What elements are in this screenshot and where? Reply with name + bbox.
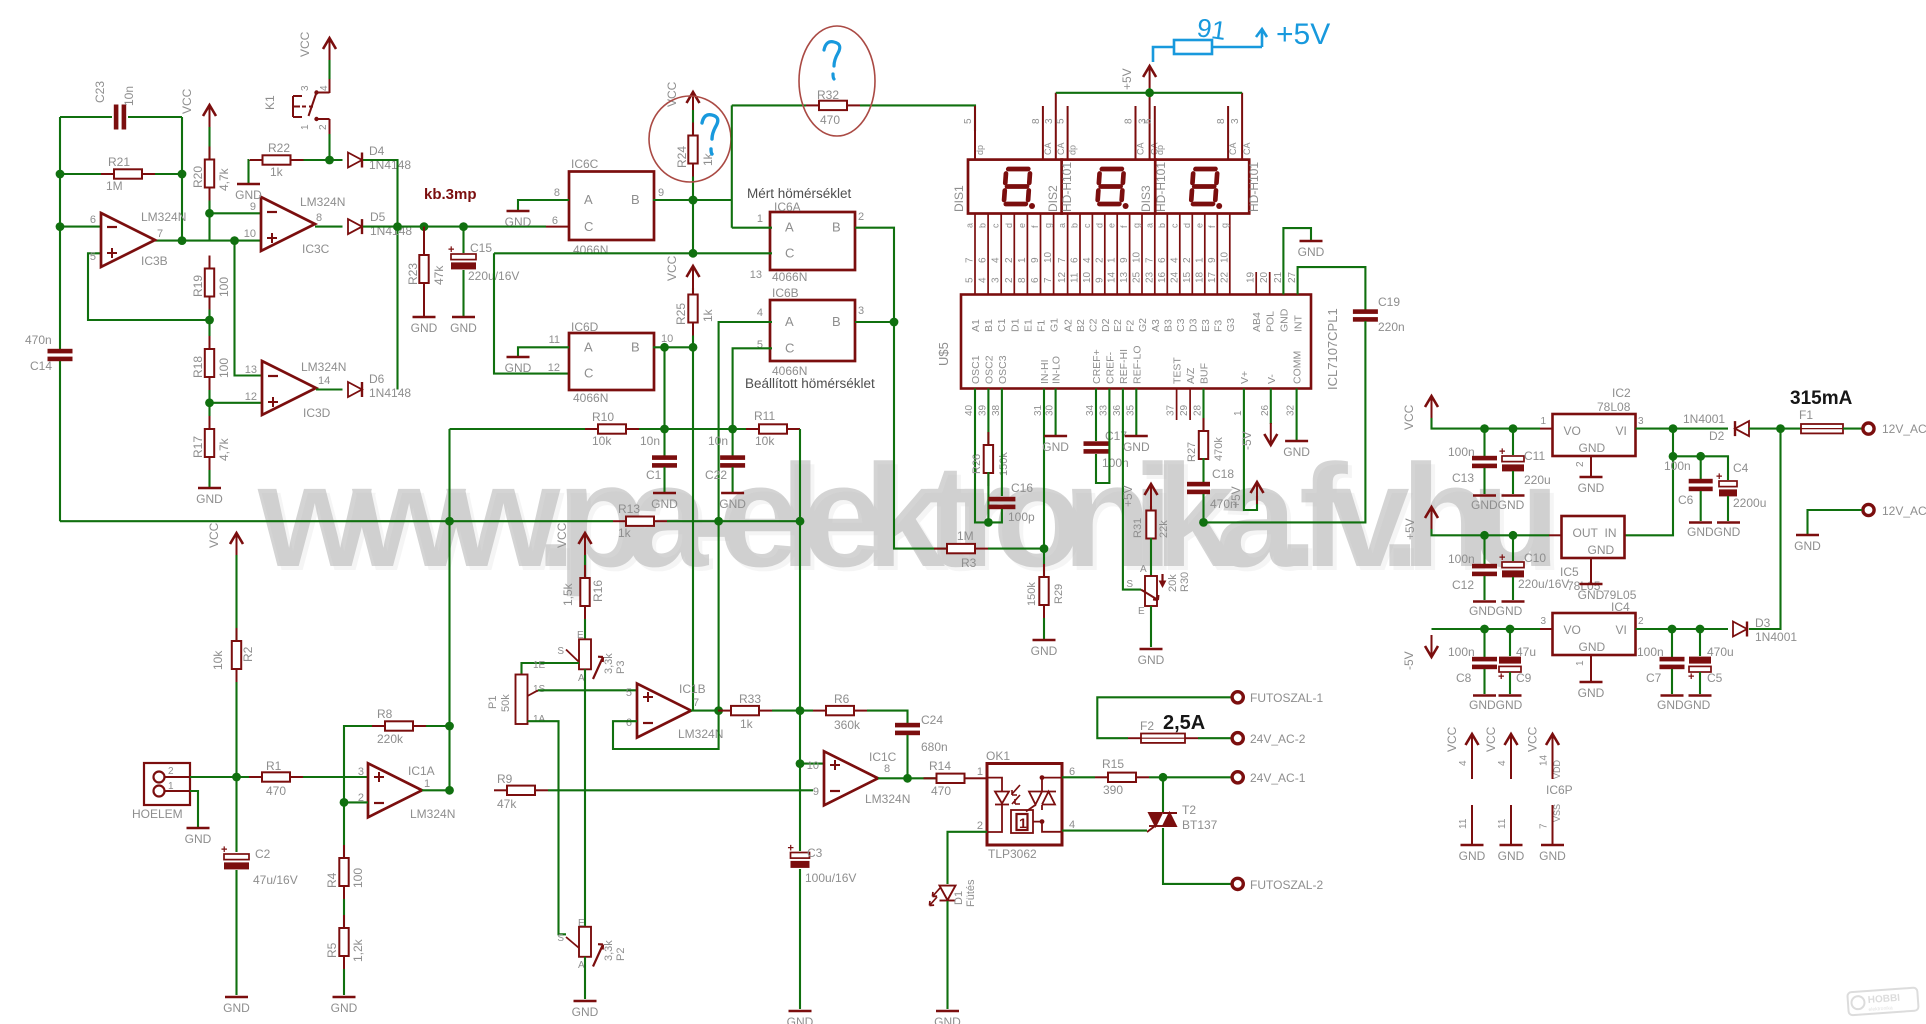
svg-text:8: 8 [1031, 118, 1042, 124]
svg-text:C3: C3 [1175, 318, 1187, 332]
svg-text:8: 8 [1216, 118, 1227, 124]
wire IC1B feedback [613, 711, 719, 749]
wire R21 left [60, 173, 114, 175]
wire R27 to C18 [1202, 458, 1204, 482]
ground R23 [411, 317, 438, 335]
resistor R33 [718, 706, 772, 715]
wire D1 to GND [946, 901, 948, 1009]
svg-text:+5V: +5V [1121, 485, 1135, 507]
wire segment pin C1 [1000, 214, 1002, 295]
svg-text:10n: 10n [708, 434, 728, 448]
svg-text:GND: GND [934, 1015, 961, 1024]
+5V symbol above R31 [1145, 484, 1158, 506]
svg-text:40: 40 [964, 404, 975, 416]
resistor R18 [205, 336, 214, 390]
junction [459, 222, 468, 231]
resistor R14 [924, 774, 978, 783]
wire +5V arrow to rail [1149, 88, 1151, 93]
svg-text:F2: F2 [1125, 320, 1137, 332]
junction [393, 222, 402, 231]
resistor R24 [688, 123, 697, 177]
svg-text:CA: CA [1228, 142, 1238, 155]
pad 24V_AC-1 [1232, 772, 1243, 783]
svg-text:100p: 100p [1008, 510, 1035, 524]
svg-text:+5V: +5V [1229, 486, 1243, 508]
svg-text:+5V: +5V [1276, 18, 1330, 51]
svg-text:A3: A3 [1150, 319, 1162, 332]
svg-text:E: E [1138, 606, 1145, 617]
svg-text:C24: C24 [921, 713, 943, 727]
junction [890, 318, 899, 327]
wire pin36 to R30 [1123, 389, 1141, 590]
svg-text:VI: VI [1616, 623, 1627, 637]
svg-text:U$5: U$5 [936, 342, 951, 366]
wire C14 bottom to y521 [59, 361, 61, 521]
ground 12V_AC [1794, 535, 1821, 553]
svg-text:D2: D2 [1100, 318, 1112, 332]
svg-text:1,5k: 1,5k [561, 582, 575, 606]
svg-text:R4: R4 [325, 872, 339, 888]
svg-text:R1: R1 [266, 759, 282, 773]
svg-text:GND: GND [651, 497, 678, 511]
svg-text:47k: 47k [497, 797, 517, 811]
svg-text:A2: A2 [1063, 319, 1075, 332]
wire INT to C19 [1298, 267, 1366, 310]
VCC symbol above R24 [687, 92, 700, 114]
svg-text:K1: K1 [263, 95, 277, 110]
ground U$5 pins 20/21 [1298, 241, 1325, 259]
wire VCC to R24 [692, 110, 694, 135]
opto triac inside OK1 [1011, 778, 1062, 833]
svg-text:23: 23 [1144, 271, 1155, 283]
svg-text:OSC1: OSC1 [970, 355, 982, 384]
svg-text:1N4001: 1N4001 [1755, 630, 1797, 644]
junction [689, 343, 698, 352]
trimmer P2 body [579, 927, 591, 957]
svg-text:220u/16V: 220u/16V [1518, 577, 1569, 591]
wire P2 to GND [584, 957, 586, 999]
wire IC6B out [855, 321, 894, 323]
pad FUTOSZAL-2 [1232, 878, 1243, 889]
svg-text:10: 10 [807, 760, 819, 772]
svg-text:24V_AC-1: 24V_AC-1 [1250, 771, 1306, 785]
svg-text:1: 1 [977, 766, 983, 778]
svg-text:4066N: 4066N [573, 243, 608, 257]
ground C3 [787, 1011, 814, 1024]
diode D6 [348, 382, 362, 397]
resistor R32 [806, 101, 860, 110]
wire P1 1A to P2 S [528, 721, 567, 934]
wire pin2 to R8 [344, 726, 372, 802]
svg-text:LM324N: LM324N [141, 210, 186, 224]
svg-text:POL: POL [1265, 311, 1277, 332]
svg-text:-5V: -5V [1240, 431, 1254, 450]
svg-text:C12: C12 [1452, 578, 1474, 592]
svg-text:F1: F1 [1799, 408, 1813, 422]
fuse F1 [1801, 424, 1843, 433]
svg-text:GND: GND [1579, 441, 1606, 455]
svg-text:150k: 150k [998, 452, 1010, 476]
VCC symbol IC6P 3 [1546, 734, 1559, 756]
svg-text:C2: C2 [1087, 318, 1099, 332]
svg-text:P2: P2 [615, 948, 627, 961]
svg-text:35: 35 [1125, 404, 1136, 416]
wire R22 left to GND [247, 160, 250, 183]
wire segment pin B1 [987, 214, 989, 295]
pad 24V_AC-2 [1232, 733, 1243, 744]
wire R1 to IC1A pin3 [303, 776, 368, 778]
capacitor C1 [652, 455, 677, 467]
svg-text:HOBBI: HOBBI [1867, 993, 1900, 1006]
annotation ellipse around R32 [799, 26, 875, 136]
junction [984, 518, 993, 527]
capacitor C13 [1472, 456, 1497, 468]
annotation blue question mark R32 [824, 42, 840, 79]
junction [796, 706, 805, 715]
wire R5 to GND [343, 969, 345, 995]
wire IC2 VI to D2 [1636, 428, 1729, 430]
svg-text:47k: 47k [432, 265, 446, 285]
svg-text:VCC: VCC [1402, 404, 1416, 430]
svg-text:6: 6 [1070, 257, 1081, 263]
pad 12V_AC-2 [1863, 504, 1874, 515]
wire gnd pin [1510, 805, 1512, 844]
svg-text:g: g [1043, 223, 1053, 228]
wire F1 to pad [1843, 428, 1862, 430]
svg-text:GND: GND [1042, 440, 1069, 454]
wire R24 node down [692, 200, 694, 253]
wire x182 vertical [181, 117, 183, 241]
svg-text:FUTOSZAL-2: FUTOSZAL-2 [1250, 878, 1323, 892]
junction [796, 759, 805, 768]
pin 37 stub [1176, 389, 1178, 421]
svg-text:1k: 1k [270, 165, 284, 179]
junction [205, 398, 214, 407]
svg-text:C23: C23 [93, 81, 107, 103]
wire pin28 down [1202, 389, 1204, 433]
svg-text:3: 3 [1044, 118, 1055, 124]
svg-text:7: 7 [693, 697, 699, 709]
svg-text:7: 7 [1043, 277, 1054, 283]
svg-text:TLP3062: TLP3062 [988, 847, 1037, 861]
wire C13 bottom [1483, 468, 1485, 494]
svg-text:S: S [1126, 579, 1133, 590]
svg-text:IN-HI: IN-HI [1039, 360, 1051, 385]
wire R10 left [450, 428, 586, 430]
svg-text:10: 10 [1043, 251, 1054, 263]
wire y521 long net [60, 520, 613, 522]
junction [1669, 424, 1678, 433]
optocoupler OK1 TLP3062 [987, 764, 1062, 846]
wire OK1 pin2 to D1 [948, 832, 988, 884]
svg-text:15: 15 [1182, 271, 1193, 283]
wire C12 bottom [1483, 576, 1485, 600]
capacitor C24 [895, 723, 920, 735]
svg-text:470: 470 [931, 784, 951, 798]
ground D1 [934, 1011, 961, 1024]
wire R24 node rail to R32 [732, 104, 806, 106]
pin CA stub [1241, 93, 1243, 160]
svg-text:LM324N: LM324N [301, 360, 346, 374]
svg-text:VSS: VSS [1552, 804, 1562, 822]
pin stub POL [1269, 272, 1271, 295]
svg-text:2: 2 [977, 820, 983, 832]
svg-text:b: b [1070, 223, 1080, 228]
wire VCC to R25 [692, 288, 694, 295]
regulator IC2 78L08 [1553, 414, 1636, 456]
svg-text:GND: GND [1298, 245, 1325, 259]
svg-text:1,2k: 1,2k [351, 938, 365, 962]
pin dp stub [974, 106, 976, 160]
op-amp IC3B triangle [101, 213, 155, 267]
svg-text:9: 9 [250, 201, 256, 213]
wire R33 to node [772, 710, 813, 712]
junction [230, 236, 239, 245]
svg-text:GND: GND [505, 215, 532, 229]
wire R31 to R30 [1150, 538, 1152, 576]
wire segment pin D2 [1104, 214, 1106, 295]
wire IC3B pin5 feedback [88, 253, 210, 320]
ground IC6P 2 [1498, 845, 1525, 863]
svg-text:2: 2 [1182, 257, 1193, 263]
fuse F2 [1128, 734, 1198, 743]
svg-text:12V_AC: 12V_AC [1882, 422, 1926, 436]
ground HOELEM [185, 828, 212, 846]
ground IC2 [1578, 477, 1605, 495]
ground R22 [235, 184, 262, 202]
svg-text:V+: V+ [1239, 371, 1251, 384]
svg-text:13: 13 [1119, 271, 1130, 283]
junction [445, 786, 454, 795]
resistor R29 [1039, 564, 1048, 618]
wire R16 to P3 [584, 619, 586, 639]
wire C10 bottom [1512, 577, 1514, 600]
wire segment pin G3 [1229, 214, 1231, 295]
display DIS1 [968, 160, 1062, 214]
svg-text:IC6P: IC6P [1546, 783, 1573, 797]
wire R10 right to C22 node [639, 428, 760, 430]
svg-text:100: 100 [217, 277, 231, 297]
wire U$5 GND pin to symbol [1283, 228, 1311, 294]
wire +5V display rail [1056, 92, 1242, 94]
pin HOELEM 2 [165, 776, 191, 778]
svg-text:GND: GND [572, 1005, 599, 1019]
svg-text:HOELEM: HOELEM [132, 807, 183, 821]
svg-text:8: 8 [884, 763, 890, 775]
junction [445, 722, 454, 731]
svg-text:HD-H101: HD-H101 [1154, 162, 1168, 212]
wire R30 to GND [1150, 606, 1152, 647]
wire C23 left [60, 116, 112, 118]
wire IC1B out [691, 710, 718, 712]
svg-text:1: 1 [1194, 257, 1205, 263]
svg-text:+5V: +5V [1120, 68, 1134, 90]
svg-text:10n: 10n [640, 434, 660, 448]
svg-text:GND: GND [223, 1001, 250, 1015]
svg-text:B3: B3 [1162, 319, 1174, 332]
svg-text:C4: C4 [1733, 461, 1749, 475]
svg-text:GND: GND [1588, 543, 1615, 557]
junction [728, 425, 737, 434]
wire C8 top [1483, 629, 1485, 658]
svg-text:16: 16 [1157, 271, 1168, 283]
junction [420, 222, 429, 231]
wire C22 bottom [732, 467, 734, 492]
annotation ellipse around R24 [649, 96, 731, 182]
svg-text:39: 39 [977, 404, 988, 416]
svg-text:1A: 1A [533, 714, 546, 725]
svg-text:GND: GND [719, 497, 746, 511]
svg-text:R21: R21 [108, 155, 130, 169]
ground IC6P 3 [1539, 845, 1566, 863]
svg-text:4: 4 [991, 257, 1002, 263]
svg-text:13: 13 [245, 364, 257, 376]
svg-text:GND: GND [1794, 539, 1821, 553]
wire P3 to P2 [584, 669, 586, 927]
junction [178, 236, 187, 245]
lead R14 to OK1 [978, 777, 988, 779]
junction [178, 170, 187, 179]
svg-text:LM324N: LM324N [678, 727, 723, 741]
svg-text:BUF: BUF [1199, 363, 1211, 384]
ground IC4 [1578, 682, 1605, 700]
svg-text:D3: D3 [1187, 318, 1199, 332]
wire C10 top [1512, 535, 1514, 561]
svg-text:P1: P1 [487, 696, 499, 709]
svg-text:R20: R20 [191, 166, 205, 188]
pad FUTOSZAL-1 [1232, 692, 1243, 703]
svg-text:R5: R5 [325, 942, 339, 958]
svg-text:19: 19 [1246, 271, 1257, 283]
wire C2 to GND [235, 870, 237, 995]
svg-text:100: 100 [351, 868, 365, 888]
wire VCC to R16 [584, 555, 586, 578]
wire IC3D pin12 [210, 402, 263, 404]
svg-text:dp: dp [975, 145, 985, 155]
svg-text:10k: 10k [211, 650, 225, 670]
wire R32 to DIS1 dp [860, 105, 975, 131]
svg-text:V-: V- [1266, 374, 1278, 384]
wire segment pin E3 [1204, 214, 1206, 295]
svg-text:34: 34 [1085, 404, 1096, 416]
svg-text:10: 10 [1082, 271, 1093, 283]
svg-text:3,3k: 3,3k [603, 653, 615, 674]
svg-text:C: C [584, 366, 593, 381]
svg-text:91: 91 [1195, 12, 1228, 46]
trimmer R30 body [1145, 576, 1157, 606]
wire IC6C pin8 to GND [518, 200, 569, 210]
junction [1480, 531, 1489, 540]
svg-text:R3: R3 [961, 556, 977, 570]
junction [1159, 773, 1168, 782]
svg-text:5: 5 [626, 687, 632, 699]
svg-text:R19: R19 [191, 275, 205, 297]
analog switch IC6B box [770, 300, 855, 361]
op-amp IC3D triangle [262, 361, 316, 415]
svg-text:INT: INT [1293, 315, 1305, 333]
svg-text:26: 26 [1260, 404, 1271, 416]
VCC symbol above R25 [687, 266, 700, 288]
svg-text:2: 2 [1094, 257, 1105, 263]
junction [1696, 625, 1705, 634]
regulator IC5 78L05 [1562, 516, 1625, 558]
ground R29 [1031, 640, 1058, 658]
watermark logo HOBBI elektronika [1847, 988, 1918, 1016]
svg-text:9: 9 [1207, 257, 1218, 263]
wire VCC rail to IC2 [1432, 418, 1541, 429]
lead IC2 GND [1590, 456, 1592, 476]
wire pin39 to R26 [987, 389, 989, 447]
diode D5 [348, 219, 362, 234]
capacitor C22 [720, 455, 745, 467]
svg-text:22: 22 [1219, 271, 1230, 283]
svg-text:B1: B1 [983, 319, 995, 332]
svg-text:GNDGND: GNDGND [1471, 498, 1525, 512]
resistor R22 [250, 155, 304, 164]
svg-text:4,7k: 4,7k [217, 167, 231, 191]
svg-text:CA: CA [1056, 142, 1066, 155]
svg-text:220u: 220u [1524, 473, 1551, 487]
svg-text:OUT: OUT [1573, 526, 1599, 540]
diode D4 [348, 153, 362, 168]
wire segment pin E2 [1116, 214, 1118, 295]
wire OK1 pin4 to T2 gate [1062, 830, 1147, 832]
ground IC6C pin8 [505, 211, 532, 229]
svg-text:6: 6 [1030, 277, 1041, 283]
wire IC6D pin10 out [653, 346, 693, 348]
svg-text:c: c [1082, 223, 1092, 228]
svg-text:GND: GND [450, 321, 477, 335]
wire R13 right [667, 520, 800, 522]
VCC symbol above R2 [230, 533, 243, 555]
svg-text:GND: GND [1539, 849, 1566, 863]
VCC symbol IC6P 1 [1466, 734, 1479, 756]
svg-text:R2: R2 [241, 646, 255, 662]
svg-text:6: 6 [978, 257, 989, 263]
svg-text:1: 1 [1540, 416, 1546, 427]
wire R4 to R5 [343, 899, 345, 928]
svg-text:4: 4 [757, 307, 763, 319]
wire R24 bottom [692, 177, 694, 201]
svg-text:A/Z: A/Z [1185, 367, 1197, 384]
resistor R17 [205, 416, 214, 470]
lead IC4 VO [1540, 628, 1553, 630]
svg-text:HD-H101: HD-H101 [1060, 162, 1074, 212]
svg-text:a: a [1057, 223, 1067, 228]
svg-text:13: 13 [750, 269, 762, 281]
wire IC3D out to D6 [316, 388, 343, 390]
svg-text:T2: T2 [1182, 803, 1196, 817]
wire C11 bottom [1512, 471, 1514, 494]
svg-text:9: 9 [1094, 277, 1105, 283]
svg-text:R11: R11 [754, 409, 775, 423]
wire segment pin F1 [1040, 214, 1042, 295]
svg-text:D2: D2 [1709, 429, 1725, 443]
svg-text:c: c [991, 223, 1001, 228]
svg-text:C1: C1 [646, 468, 662, 482]
svg-text:IC6D: IC6D [571, 320, 599, 334]
junction [660, 343, 669, 352]
svg-text:10k: 10k [592, 434, 612, 448]
svg-text:37: 37 [1166, 404, 1177, 416]
svg-text:20: 20 [1259, 271, 1270, 283]
svg-text:10: 10 [1219, 251, 1230, 263]
wire R25 bottom [692, 336, 694, 348]
svg-text:9: 9 [1119, 257, 1130, 263]
svg-text:GND: GND [185, 832, 212, 846]
capacitor C9 [1498, 657, 1521, 683]
svg-text:IC6B: IC6B [772, 286, 799, 300]
